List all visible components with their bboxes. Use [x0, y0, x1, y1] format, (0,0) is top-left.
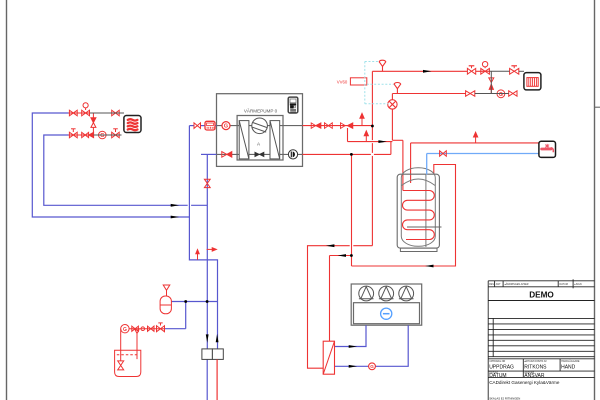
svg-text:REV: REV [489, 283, 494, 286]
svg-text:G: G [499, 92, 503, 98]
svg-text:HANDLÄGGARE: HANDLÄGGARE [561, 360, 580, 363]
svg-text:RITKONS: RITKONS [524, 365, 547, 371]
svg-text:UPPDRAG: UPPDRAG [489, 365, 514, 371]
svg-text:HAND: HAND [561, 365, 576, 371]
svg-text:CADdirekt Gasenergi Kyla&Värme: CADdirekt Gasenergi Kyla&Värme [489, 380, 560, 385]
svg-text:▴RITAD/KONSTR AV: ▴RITAD/KONSTR AV [524, 360, 547, 363]
svg-text:DATUM: DATUM [489, 373, 506, 379]
svg-text:VÄRMEPUMP 0: VÄRMEPUMP 0 [244, 108, 278, 114]
svg-text:DEMO: DEMO [529, 290, 554, 299]
svg-text:▸SIGN: ▸SIGN [575, 283, 582, 286]
svg-text:G: G [224, 124, 228, 130]
svg-text:ANT: ANT [496, 283, 501, 286]
svg-text:DATUM: DATUM [560, 283, 568, 286]
svg-text:SKALAS EJ RITNINGEN: SKALAS EJ RITNINGEN [489, 396, 520, 400]
svg-text:UPPDRAG.NR: UPPDRAG.NR [489, 360, 505, 363]
svg-text:G: G [100, 133, 104, 139]
svg-text:VV60: VV60 [337, 79, 348, 84]
svg-text:▴ÄNDRINGEN AVSER: ▴ÄNDRINGEN AVSER [505, 283, 529, 286]
svg-text:ANSVAR: ANSVAR [524, 373, 545, 379]
svg-text:G: G [370, 364, 374, 369]
svg-text:A: A [257, 141, 261, 146]
svg-text:G: G [123, 327, 127, 333]
